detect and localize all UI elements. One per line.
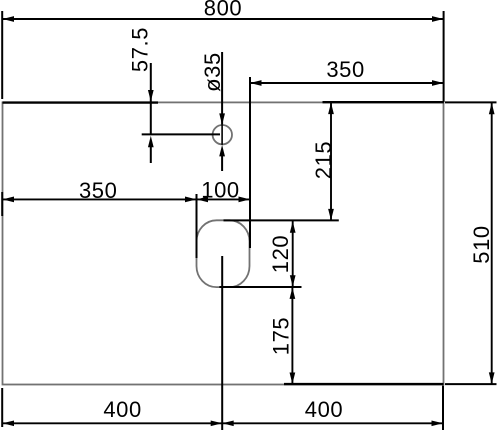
- dimension 400 left: [2, 388, 222, 427]
- svg-text:ø35: ø35: [200, 52, 225, 92]
- dimension 57.5: [3, 27, 221, 163]
- faucet hole ø35: [213, 125, 232, 144]
- dimension 215: [224, 102, 444, 220]
- svg-text:350: 350: [326, 57, 365, 82]
- dimension 350 top right: [250, 57, 444, 248]
- svg-text:400: 400: [305, 397, 344, 422]
- dimension 400 right: [222, 256, 443, 430]
- svg-text:800: 800: [204, 0, 243, 21]
- countertop outline: [3, 102, 444, 384]
- dimension ø35 leader: [200, 52, 225, 171]
- dimension 510: [445, 102, 497, 384]
- svg-text:175: 175: [269, 317, 294, 356]
- dimension 175: [219, 287, 443, 384]
- dimension 100: [197, 178, 251, 203]
- svg-text:120: 120: [268, 235, 293, 274]
- svg-text:400: 400: [103, 397, 142, 422]
- basin outline: [197, 220, 250, 287]
- dimension 350 left: [2, 178, 196, 258]
- svg-text:57.5: 57.5: [127, 27, 152, 72]
- svg-text:510: 510: [469, 225, 494, 264]
- svg-text:350: 350: [79, 178, 118, 203]
- svg-text:100: 100: [201, 178, 240, 203]
- svg-text:215: 215: [311, 141, 336, 180]
- dimension 800: [2, 0, 443, 102]
- dimension 120: [268, 221, 296, 287]
